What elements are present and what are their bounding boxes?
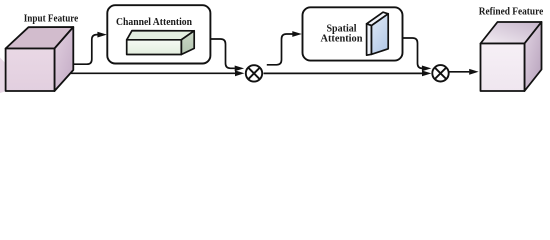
input feature cube: cropped left-face sliver: [0, 58, 5, 94]
wire: multiplier 2 to refined cube: [449, 71, 469, 73]
refined feature cube: [481, 22, 542, 91]
svg-text:Input Feature: Input Feature: [24, 14, 79, 25]
multiplier circle 2: [432, 65, 448, 81]
green channel-attention slab: [127, 31, 195, 55]
wire: main line multiplier 1 to multiplier 2: [264, 72, 423, 74]
spatial attention box: [303, 7, 403, 60]
wire: spatial box exit down to multiplier 2: [403, 38, 423, 68]
wire: channel box exit down to multiplier 1: [210, 39, 235, 68]
wire: main line cube to multiplier 1: [71, 72, 235, 74]
wire: cube to channel-attention box (up arrow): [74, 35, 98, 65]
input feature cube: [6, 27, 74, 91]
blue spatial-attention slab: [367, 12, 389, 55]
svg-text:Attention: Attention: [321, 33, 363, 44]
svg-text:Refined Feature: Refined Feature: [479, 7, 544, 18]
wire: multiplier 1 to spatial-attention box (up arrow): [267, 34, 293, 65]
multiplier circle 1: [246, 65, 262, 81]
channel attention box: [107, 5, 210, 63]
svg-text:Channel Attention: Channel Attention: [116, 17, 192, 28]
